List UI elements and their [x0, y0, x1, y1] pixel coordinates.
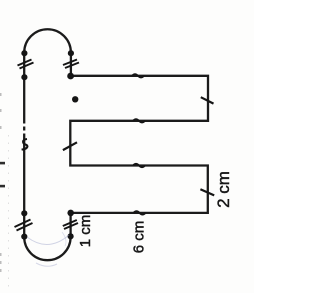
wavy tick: top arm bottom edge	[133, 119, 145, 122]
wavy tick: bottom arm top edge	[133, 164, 145, 167]
node dot: left end of bottom arc	[21, 234, 27, 240]
node dot: isolated interior dot	[72, 96, 78, 102]
wavy tick: top arm top edge	[132, 74, 144, 77]
node dot: right end of top arc	[68, 50, 74, 56]
double-slash tick: stem right line, bottom (1 cm mark)	[63, 220, 78, 229]
double-slash tick: stem right line, top (1 cm mark)	[63, 60, 79, 69]
faint dotted scan line left edge	[8, 135, 10, 290]
cut-off text tick left edge upper	[0, 162, 5, 165]
faint left-edge scan marks	[0, 93, 2, 272]
node dot: left line below top tick	[21, 74, 27, 80]
node dot: left end of top arc	[21, 50, 27, 56]
cut-off text tick left edge lower	[0, 185, 5, 188]
svg-text:6 cm: 6 cm	[131, 221, 148, 254]
single slash tick: notch left edge	[63, 142, 77, 150]
node dot: right end of bottom arc	[68, 233, 74, 239]
single slash tick: bottom arm right edge (2 cm mark)	[200, 189, 214, 195]
shape outline: comb figure with semicircular ends	[24, 29, 208, 260]
node dot: corner of bottom arm and stem	[67, 210, 74, 217]
double-slash tick: left line, top (1 cm mark)	[18, 60, 34, 69]
svg-text:1 cm: 1 cm	[77, 215, 94, 248]
faded dashes on left line above squiggle	[23, 124, 26, 134]
wavy tick: bottom arm bottom edge (6 cm mark)	[134, 211, 146, 214]
squiggle tick: left line middle	[22, 139, 28, 150]
single slash tick: top arm right edge	[201, 97, 214, 103]
node dot: left line above bottom tick	[21, 210, 27, 216]
svg-text:2 cm: 2 cm	[214, 171, 233, 208]
double-slash tick: left line, bottom (1 cm mark)	[15, 220, 33, 231]
node dot: corner of stem and top arm	[67, 73, 74, 80]
faint pencil arc artifacts near bottom semicircle	[27, 235, 69, 245]
